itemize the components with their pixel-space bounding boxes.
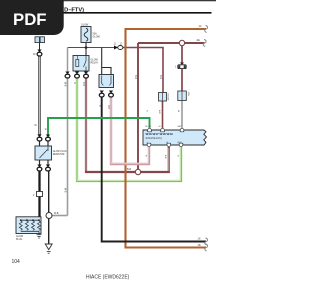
wire: maroon x=162.5 box to ECM pin xyxy=(162,101,164,129)
svg-text:PDF: PDF xyxy=(13,10,47,29)
node: junction circle (49,215.5) xyxy=(46,213,52,219)
wire: black sensor net x=101.7 xyxy=(101,48,103,75)
label box W2 xyxy=(187,92,189,96)
wire: maroon x=182 junction to connector xyxy=(181,46,183,63)
wire: maroon top line y=43 to page break xyxy=(138,42,205,44)
svg-text:2: 2 xyxy=(33,195,35,197)
wire: box stubs above resistor box xyxy=(39,141,41,147)
ground GND2 (48.7,248) xyxy=(45,244,52,253)
svg-text:14: 14 xyxy=(199,24,202,28)
svg-text:W16 W17 W18 W19: W16 W17 W18 W19 xyxy=(146,132,174,136)
svg-text:2E: 2E xyxy=(197,38,200,42)
break symbol brown top (206,29) xyxy=(205,26,208,33)
svg-text:GLOW: GLOW xyxy=(145,126,151,128)
ECM pin GLOW top (149.5,129.5) xyxy=(145,126,151,132)
svg-text:B-R: B-R xyxy=(159,75,161,79)
ECM pin bottom THW (149,145.5) xyxy=(147,142,151,147)
ECM pin bottom GREL (181,145.5) xyxy=(177,142,183,147)
connector 1F (39.5,49.5) xyxy=(37,50,42,56)
wire: relay left branch x=67.5 down xyxy=(67,48,69,73)
battery connector box B1 xyxy=(35,37,45,43)
ECM pin bottom 2 (168.8,145.5) xyxy=(166,142,171,147)
label wire G ecm xyxy=(146,110,148,112)
svg-text:B-R: B-R xyxy=(158,110,160,114)
label wire B-R ecm xyxy=(158,110,160,114)
wire: gray jog to glow plug junction xyxy=(52,215,68,217)
label wire R below ecm xyxy=(145,155,147,157)
node: junction circle (138,172) xyxy=(135,169,140,174)
label box W1 xyxy=(167,94,169,102)
wire: green1 glow resistor to ECM xyxy=(48,118,150,135)
intake heater box B3 xyxy=(99,75,114,88)
wire: black from connector to bottom break xyxy=(102,97,206,242)
svg-text:B-R: B-R xyxy=(127,168,131,171)
label wire G below ecm xyxy=(177,155,179,157)
wire: maroon relay output to ECM xyxy=(86,78,169,173)
svg-text:RESISTOR: RESISTOR xyxy=(53,154,65,156)
glow plugs R1-R4 box xyxy=(16,217,41,234)
connector flange (182,66) xyxy=(178,63,186,69)
wire: maroon y=47.5 to corner x=163 down to box xyxy=(122,48,164,94)
page top border xyxy=(0,0,216,2)
svg-text:GLOW: GLOW xyxy=(16,236,24,238)
svg-text:RELAY: RELAY xyxy=(91,62,99,65)
glow plug relay K1 xyxy=(73,56,89,72)
wire: gray x=182 box to ECM pin xyxy=(181,101,183,129)
svg-text:HIACE (EWD622E): HIACE (EWD622E) xyxy=(86,275,130,281)
svg-text:R: R xyxy=(145,155,147,157)
svg-text:1F: 1F xyxy=(33,54,36,56)
label wire B xyxy=(98,105,100,107)
label wire W ecm xyxy=(177,110,179,113)
svg-text:GLOW: GLOW xyxy=(81,24,89,27)
label wire B-R relay xyxy=(82,82,84,86)
svg-text:W-B: W-B xyxy=(54,213,59,215)
svg-text:G: G xyxy=(73,82,75,84)
connector arrow (118,47.5) xyxy=(114,46,123,50)
svg-text:B-R: B-R xyxy=(82,82,84,86)
svg-text:11: 11 xyxy=(114,44,117,46)
svg-text:W-B: W-B xyxy=(64,82,66,87)
connector (86,71.5) xyxy=(84,72,89,79)
wire: main feed thick gray x=39.5 xyxy=(38,56,41,135)
break symbol brown bottom (206,247.5) xyxy=(205,244,208,251)
label wire R-B xyxy=(107,105,109,109)
connector (39.5,164.5) xyxy=(37,165,42,172)
svg-text:104: 104 xyxy=(12,259,21,265)
connector (67.5,71.5) xyxy=(65,72,70,79)
wire: box stubs below resistor box xyxy=(39,160,41,165)
connector box J2 on glow feed xyxy=(37,192,43,197)
svg-text:B-R: B-R xyxy=(164,155,166,159)
svg-text:1: 1 xyxy=(175,67,177,69)
connector (77,71.5) xyxy=(75,72,80,79)
wire: W-B gray x=67.5 down to junction xyxy=(67,78,69,216)
wire: maroon x=182 connector to box xyxy=(181,69,183,92)
svg-text:W: W xyxy=(35,125,38,127)
wire: brown big loop xyxy=(126,29,207,248)
wire: black to ground x=48.7 xyxy=(48,171,50,245)
break symbol black bottom (206,241.5) xyxy=(205,238,208,245)
PDF badge xyxy=(0,0,64,35)
wire: jog to second pin xyxy=(102,68,111,75)
fusible link GLOW F1 xyxy=(81,27,91,43)
svg-text:+B: +B xyxy=(158,126,161,128)
svg-text:PLUG: PLUG xyxy=(16,239,22,241)
connector (48,164.5) xyxy=(46,165,51,172)
label wire B-R feed xyxy=(159,75,161,79)
svg-text:G: G xyxy=(177,155,179,157)
svg-text:G: G xyxy=(45,129,47,131)
wire: relay pin stubs xyxy=(76,71,78,72)
ECM pin top 2 (162.5,129.5) xyxy=(158,126,164,132)
connector (48,134.5) xyxy=(46,135,51,142)
label wire G relay xyxy=(73,82,75,84)
svg-text:B-R: B-R xyxy=(134,75,136,79)
wire: battery box to connector xyxy=(39,43,41,50)
svg-text:W-B: W-B xyxy=(64,188,66,193)
node: junction circle (182,43) xyxy=(179,40,184,45)
wire: maroon branch x=138 from top line xyxy=(137,43,139,172)
svg-text:W: W xyxy=(177,110,179,113)
svg-text:GREL: GREL xyxy=(177,142,183,144)
title underline xyxy=(5,12,212,14)
label wire W-B lower xyxy=(64,188,66,193)
wire: fusible link feed y=47.5 xyxy=(68,47,117,49)
svg-text:BATT: BATT xyxy=(178,125,184,128)
connector (111,90.5) xyxy=(109,91,114,98)
node: junction dot at (86,47.5) xyxy=(85,46,88,49)
svg-text:GLOW PLUG: GLOW PLUG xyxy=(53,151,67,153)
connector (101.7,90.5) xyxy=(99,91,104,98)
ECM pin top 3 (182,129.5) xyxy=(178,125,184,132)
svg-text:GLOW: GLOW xyxy=(93,36,101,39)
svg-text:IGN: IGN xyxy=(187,92,189,96)
svg-text:G: G xyxy=(146,110,148,112)
wire: pink ECM to sensor box xyxy=(111,97,149,165)
svg-text:R-B: R-B xyxy=(107,105,109,109)
connector (39.5,134.5) xyxy=(37,135,42,142)
ground under glow plugs xyxy=(37,231,42,238)
wire: thick black to glow plugs xyxy=(38,171,40,218)
junction connector box W2 (182,95.5) xyxy=(178,91,187,101)
label wire W-B relay xyxy=(64,82,66,87)
ECM U1 xyxy=(143,130,207,145)
label wire B-R below ecm xyxy=(164,155,166,159)
wire: fuse to relay x=86 xyxy=(85,43,87,56)
svg-text:(ENGINE ECU): (ENGINE ECU) xyxy=(146,137,163,140)
wire: green relay coil to ECM (GREL) xyxy=(77,78,181,182)
break symbol maroon (204.5,43) xyxy=(203,40,206,47)
label wire B-R branch xyxy=(134,75,136,79)
svg-text:GLOW: GLOW xyxy=(167,94,169,102)
svg-text:B: B xyxy=(98,105,100,107)
glow sensor box B2 xyxy=(35,146,52,160)
junction connector box W1 (162.5,96) xyxy=(159,93,167,102)
svg-text:16: 16 xyxy=(198,237,201,241)
svg-text:1J: 1J xyxy=(120,44,122,46)
